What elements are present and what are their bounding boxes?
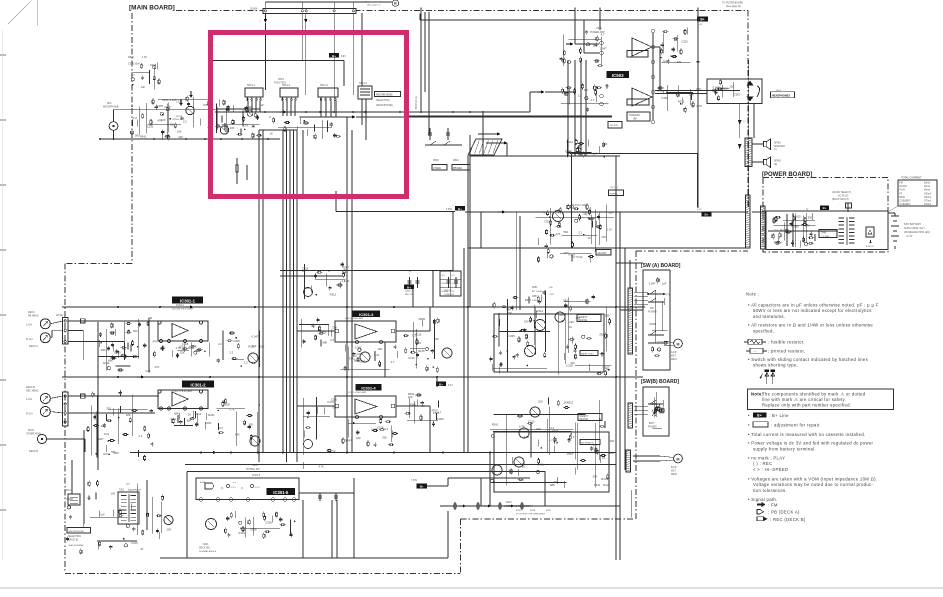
svg-text:▷: ▷ — [241, 486, 244, 490]
svg-text:0.047: 0.047 — [131, 541, 138, 545]
arrow down to speaker connector — [738, 120, 742, 125]
IC301-2 input network — [131, 395, 133, 436]
svg-text:< > : HI−SPEED: < > : HI−SPEED — [753, 467, 788, 472]
svg-text:R-CH: R-CH — [26, 412, 33, 416]
bias table S301-1 — [440, 271, 461, 296]
deck B lower enclosure — [494, 432, 609, 492]
svg-text:SW 503: SW 503 — [610, 125, 619, 127]
svg-text:4.7K: 4.7K — [229, 408, 235, 412]
svg-text:4.7K: 4.7K — [665, 293, 671, 297]
svg-text:A PLAY GND: A PLAY GND — [573, 204, 587, 207]
wire CN304 pin drop — [333, 14, 335, 113]
svg-text:THM: THM — [821, 232, 826, 235]
svg-text:100: 100 — [148, 316, 153, 320]
wire mon head — [47, 438, 85, 440]
bottom bias resistor row — [440, 505, 620, 507]
svg-text:REC HEAD: REC HEAD — [26, 390, 39, 393]
svg-text:S501: S501 — [278, 78, 284, 81]
IC301-5 bottom resistor clusters — [289, 520, 291, 536]
svg-text:2.2: 2.2 — [341, 279, 345, 283]
svg-text:C210: C210 — [408, 356, 415, 360]
svg-text:(DECK B): (DECK B) — [68, 540, 78, 542]
svg-text:4.7: 4.7 — [131, 73, 135, 77]
svg-text:DRY BATTERY: DRY BATTERY — [904, 223, 922, 226]
svg-text:60mA: 60mA — [924, 182, 930, 185]
svg-text:SAFETY: SAFETY — [579, 316, 588, 319]
svg-text:C318: C318 — [265, 521, 272, 525]
wire CN304 pin drop 2 — [352, 14, 354, 96]
svg-text:MUTING SW: MUTING SW — [246, 469, 260, 471]
IC301-2 bias resistors below — [177, 415, 179, 423]
svg-text:MICROPHONE: MICROPHONE — [103, 107, 119, 109]
svg-text:R115: R115 — [603, 483, 610, 487]
svg-text:100: 100 — [103, 452, 108, 456]
B+ tag right bus — [436, 382, 446, 387]
svg-text:47K: 47K — [556, 232, 561, 236]
svg-text:B+: B+ — [705, 213, 709, 217]
svg-text:C507: C507 — [734, 93, 741, 97]
svg-text:100: 100 — [524, 319, 529, 323]
deck A rec/pb component cluster — [606, 205, 608, 242]
svg-text:S501-3: S501-3 — [320, 84, 329, 87]
svg-text:[SW (A) BOARD]: [SW (A) BOARD] — [641, 263, 681, 269]
svg-text:R201: R201 — [506, 501, 512, 504]
svg-text:1uF: 1uF — [100, 513, 105, 517]
transistor Q208 — [514, 457, 524, 467]
resistor row under IC503 — [566, 139, 568, 157]
svg-text:IC503: IC503 — [612, 73, 624, 78]
wire vertical x483 — [482, 112, 484, 156]
wire play line down — [469, 135, 471, 307]
svg-text:B+: B+ — [823, 206, 827, 210]
svg-text:7.45V: 7.45V — [411, 480, 417, 482]
IC301-5 section enclosure — [186, 472, 188, 559]
svg-text:HEADPHONES: HEADPHONES — [772, 93, 791, 97]
svg-text:0.01: 0.01 — [374, 353, 380, 357]
svg-text:10K: 10K — [689, 92, 694, 96]
IC301-5 pin circles — [199, 498, 203, 502]
svg-text:( ) : REC: ( ) : REC — [753, 461, 772, 466]
svg-text:10K: 10K — [177, 130, 182, 134]
svg-text:SUM-3 (SIZE "AA"): SUM-3 (SIZE "AA") — [904, 227, 925, 230]
wires deck A drop to SW(A) — [615, 156, 617, 560]
svg-text:C-: C- — [743, 121, 746, 123]
IC301-4 label — [356, 384, 382, 391]
svg-text:[MAIN BOARD]: [MAIN BOARD] — [129, 5, 175, 12]
wire mic top rail — [113, 110, 115, 122]
svg-text:1K: 1K — [140, 547, 143, 551]
svg-text:C318: C318 — [176, 99, 183, 103]
svg-text:R351: R351 — [532, 287, 538, 289]
svg-text:NORMAL ANGLE: NORMAL ANGLE — [199, 550, 217, 553]
speaker SP901 L — [764, 142, 767, 147]
main board outline bottom step vertical — [460, 519, 462, 574]
svg-text:IC301-3: IC301-3 — [359, 312, 374, 317]
svg-text:B+: B+ — [458, 207, 462, 211]
op-amp U301d — [355, 399, 377, 414]
svg-text:90mA: 90mA — [924, 189, 930, 192]
IC301-3 pin circles — [335, 329, 339, 333]
svg-text:2.2: 2.2 — [244, 360, 248, 364]
svg-text:OTHER HEAD: OTHER HEAD — [26, 433, 41, 436]
svg-text:R341: R341 — [101, 348, 108, 352]
svg-text:C210: C210 — [565, 149, 572, 153]
svg-text:330: 330 — [106, 407, 111, 411]
IC301-2 pin circles — [159, 407, 162, 410]
transistor Q204 — [525, 346, 536, 357]
svg-text:4.7: 4.7 — [601, 32, 605, 36]
svg-text:1.5K: 1.5K — [142, 56, 147, 59]
transistor Q301 — [248, 353, 258, 363]
main bus y212 to power board — [465, 211, 748, 213]
svg-text:2.2: 2.2 — [550, 426, 554, 430]
deck B bias osc cluster right — [605, 308, 607, 352]
IC301-2 block outline — [158, 390, 208, 409]
svg-text:68K: 68K — [323, 341, 328, 345]
svg-text:560: 560 — [133, 329, 138, 333]
svg-text:IC301-2: IC301-2 — [191, 382, 207, 387]
transistor Q212 — [164, 515, 173, 524]
svg-text:R115: R115 — [359, 360, 366, 364]
label R501 PB/REC — [452, 165, 470, 171]
SW(B) switch symbols — [648, 403, 663, 405]
svg-text:5.35V: 5.35V — [446, 209, 452, 211]
svg-text:2.2: 2.2 — [385, 427, 389, 431]
svg-text:: B+ Line: : B+ Line — [769, 413, 789, 418]
svg-text:(L): (L) — [774, 149, 777, 151]
svg-text:C305: C305 — [508, 334, 515, 338]
svg-text:R267: R267 — [546, 510, 552, 512]
svg-text:0.047: 0.047 — [355, 345, 362, 349]
SW(B) interior contacts — [655, 392, 657, 417]
SW(A) interior contacts — [661, 301, 663, 331]
wire from pink box bottom to B+ bus — [335, 191, 337, 212]
svg-text:22K: 22K — [167, 528, 172, 532]
svg-text:1uF: 1uF — [662, 282, 667, 286]
sw speed B label — [580, 440, 600, 445]
arrow on bus y452 — [213, 451, 217, 454]
IC503 output network lower — [666, 85, 668, 111]
connector bar CN203 — [628, 288, 633, 354]
wire L-CH deck B — [50, 396, 62, 399]
svg-text:• All capacitors are in µF un: • All capacitors are in µF unless otherw… — [748, 302, 879, 307]
svg-text:MIC: MIC — [107, 102, 112, 105]
wire bus down from B+ node — [697, 8, 699, 209]
transistor Q304 — [304, 440, 313, 449]
svg-text:10K: 10K — [230, 126, 235, 130]
bottom step wire — [447, 511, 449, 558]
svg-text:10K: 10K — [570, 361, 575, 365]
IC503 input caps cluster lower — [568, 89, 570, 105]
capacitor pair S301-2 — [409, 277, 411, 288]
svg-text:R529: R529 — [128, 56, 134, 59]
wire pink box top rail — [213, 60, 344, 62]
svg-text:(DECK/PHONE): (DECK/PHONE) — [376, 105, 393, 107]
svg-text:SELECTING: SELECTING — [376, 99, 390, 102]
svg-text:190mA: 190mA — [924, 196, 932, 199]
svg-text:100: 100 — [179, 344, 184, 348]
transistor Q501 mic amp — [186, 106, 194, 114]
svg-text:DECK SEL: DECK SEL — [199, 548, 211, 550]
wire bundle descending from switches to equalizer — [258, 130, 260, 462]
safety device label A — [577, 315, 601, 322]
main record bus through pink box — [215, 111, 530, 113]
REC arrow legend — [757, 517, 764, 521]
wire R-ch input — [584, 52, 599, 54]
svg-text:R207: R207 — [525, 298, 532, 302]
svg-text:C318: C318 — [250, 528, 257, 532]
svg-text:2.2: 2.2 — [218, 342, 222, 346]
svg-text:4.7K: 4.7K — [318, 465, 324, 469]
svg-text:10K: 10K — [610, 439, 615, 443]
svg-text:C210: C210 — [682, 39, 689, 43]
svg-text:STAND BY: STAND BY — [629, 114, 641, 117]
wire major bus y307 — [62, 306, 645, 308]
svg-text:B+: B+ — [332, 54, 336, 58]
op-amp U503a feedback box — [627, 51, 648, 58]
connector CN102 bar — [63, 392, 69, 426]
IC503 label — [607, 71, 630, 78]
svg-text:0.01: 0.01 — [145, 369, 151, 373]
svg-text:47K: 47K — [152, 339, 157, 343]
svg-text:AZ TH-SE: AZ TH-SE — [532, 290, 542, 293]
svg-text:CUE&REV: CUE&REV — [900, 200, 912, 202]
svg-text:4.7: 4.7 — [438, 411, 442, 415]
svg-text:68K: 68K — [174, 411, 179, 415]
svg-text:330: 330 — [599, 332, 604, 336]
ferrite bead L — [81, 319, 86, 323]
wire top rail to node B — [265, 1, 392, 3]
op-amp U503b — [632, 88, 652, 106]
svg-text:TO (tuner board): TO (tuner board) — [365, 1, 382, 4]
svg-text:2.2: 2.2 — [133, 116, 137, 120]
svg-text:1uF: 1uF — [225, 129, 230, 133]
bottom row verticals — [454, 500, 456, 506]
svg-text:R312: R312 — [537, 309, 544, 313]
svg-text:C210: C210 — [657, 340, 664, 344]
svg-text:4.7K: 4.7K — [585, 213, 591, 217]
power board filter caps cluster — [786, 214, 788, 246]
svg-text:5.4V: 5.4V — [448, 385, 453, 387]
svg-text:330: 330 — [382, 436, 387, 440]
svg-text:R312: R312 — [567, 140, 574, 144]
IC301-3 surrounding network — [348, 346, 350, 370]
svg-text:22K: 22K — [260, 345, 265, 349]
wire x433 drop — [432, 271, 434, 307]
svg-text:Voltage variations may be: Voltage variations may be noted due to n… — [753, 482, 873, 487]
svg-text:MON: MON — [28, 429, 34, 432]
wires IC301-5 right routing — [299, 485, 416, 487]
svg-text:•: • — [748, 413, 750, 418]
svg-text:A-FR: A-FR — [671, 351, 677, 354]
IC503 input caps cluster upper — [563, 35, 565, 61]
printed resistor symbol — [746, 350, 750, 352]
svg-text:4.7K: 4.7K — [696, 104, 702, 108]
svg-text:R265: R265 — [516, 510, 522, 512]
svg-text:C305: C305 — [661, 96, 668, 100]
svg-text:B+: B+ — [439, 382, 443, 386]
svg-text:[SW(B) BOARD]: [SW(B) BOARD] — [641, 379, 679, 385]
svg-text:M901: M901 — [671, 359, 677, 361]
svg-text:IC301-5: IC301-5 — [273, 490, 289, 495]
wire row y276 — [280, 275, 343, 277]
bottom long wire — [160, 557, 448, 559]
FM arrow legend — [757, 502, 766, 507]
svg-text:M: M — [677, 343, 680, 347]
wire vertical x507 to play bus — [506, 143, 508, 156]
cap C505 — [246, 165, 248, 180]
svg-text:SONY: SONY — [442, 283, 448, 285]
capacitor C509 — [429, 128, 431, 140]
svg-text:TOTAL CURRENT: TOTAL CURRENT — [901, 177, 922, 180]
svg-text:FUNCTION: FUNCTION — [274, 83, 286, 85]
transistor Q305 — [360, 352, 370, 362]
svg-text:• Power voltage is dc 3V: • Power voltage is dc 3V and fed with re… — [748, 441, 874, 446]
svg-text:IC301-2 PB EQ AMP: IC301-2 PB EQ AMP — [172, 390, 193, 393]
wire battery to board — [888, 212, 895, 214]
IC301-5 label — [267, 488, 296, 495]
svg-text:B+: B+ — [407, 285, 411, 289]
IC301-1 input network — [123, 325, 125, 355]
svg-text:● ●: ● ● — [233, 482, 236, 484]
IC301-5 interior parts — [227, 485, 230, 488]
speaker SP902 R — [764, 160, 767, 165]
transistor Q211 — [206, 519, 217, 530]
REC/PB mode label bottom — [67, 528, 91, 534]
svg-text:60mA: 60mA — [924, 185, 930, 188]
svg-text:▷: ▷ — [221, 486, 224, 490]
svg-text:S201: S201 — [203, 544, 209, 546]
svg-text:LEAD/NORMAL: LEAD/NORMAL — [68, 544, 84, 547]
main board outline bottom edge right — [461, 518, 634, 520]
signal arrow play path — [504, 141, 508, 144]
main board outline top edge — [176, 10, 748, 12]
motor M901 deck A — [674, 339, 683, 348]
bottom-left long verticals — [83, 430, 85, 524]
transistor Q306 — [442, 348, 452, 358]
svg-text:PB HEAD: PB HEAD — [28, 315, 39, 318]
svg-text:10K: 10K — [377, 347, 382, 351]
svg-text:R501: R501 — [453, 159, 459, 162]
svg-text:R341: R341 — [594, 483, 601, 487]
svg-text:R312: R312 — [678, 99, 685, 103]
switch S501-3 — [318, 88, 338, 97]
wires into SW(A) — [616, 262, 643, 264]
deck B lower cluster — [546, 419, 548, 453]
B+ tag power board — [820, 206, 829, 211]
svg-text:22K: 22K — [161, 118, 166, 122]
main board outline right edge — [747, 11, 749, 208]
IC503 pin circles — [651, 29, 655, 33]
wire bus y156 — [470, 155, 620, 157]
svg-text:•: • — [748, 423, 750, 428]
deck B bias osc cluster upper — [535, 307, 537, 355]
svg-text:R312: R312 — [330, 292, 337, 296]
mid column coupling network lower — [256, 412, 258, 452]
wire CN301 riser right — [574, 8, 576, 45]
transistor Q302 — [250, 436, 260, 446]
svg-text:L-CH: L-CH — [26, 323, 32, 327]
svg-text:and tantalums.: and tantalums. — [753, 314, 785, 319]
caps right of IC301-5 — [319, 493, 321, 501]
op-amp U301c — [355, 324, 377, 339]
svg-text:0.01: 0.01 — [607, 227, 613, 231]
wire step to B+ tag — [427, 485, 448, 487]
svg-text:f-CO: f-CO — [255, 487, 260, 489]
wire CN304 pin drop 3 — [301, 14, 303, 61]
arrow down 2 — [738, 144, 742, 149]
svg-text:ADJUST: ADJUST — [598, 252, 608, 255]
capacitor C510 — [447, 128, 449, 140]
wire REC bus to IC503 — [529, 92, 531, 112]
svg-text:FM: FM — [900, 183, 903, 185]
svg-text:1uF: 1uF — [141, 85, 146, 89]
svg-text:IC301-4: IC301-4 — [361, 385, 376, 390]
connector CN501 bar — [746, 195, 751, 248]
svg-text:0.047: 0.047 — [327, 400, 334, 404]
svg-text:T201: T201 — [119, 490, 125, 492]
svg-text:1K: 1K — [675, 92, 678, 96]
svg-text:R115: R115 — [239, 531, 246, 535]
svg-text:330: 330 — [519, 478, 524, 482]
svg-text:100: 100 — [111, 491, 116, 495]
svg-text:IC301-1: IC301-1 — [180, 298, 196, 303]
IC301-5 block outline — [196, 478, 299, 500]
svg-text:68K: 68K — [187, 419, 192, 423]
svg-text:R115: R115 — [650, 322, 657, 326]
main bus y248 — [468, 247, 748, 249]
IC301-3 label — [353, 311, 381, 318]
svg-text:• All resistors are in Ω and: • All resistors are in Ω and 1/4W or les… — [748, 322, 873, 327]
svg-text:1K: 1K — [270, 131, 273, 135]
svg-text:MOT: MOT — [671, 471, 677, 473]
svg-text:0.047: 0.047 — [600, 46, 607, 50]
svg-text:R207: R207 — [97, 437, 104, 441]
svg-text:REW: REW — [900, 197, 906, 199]
svg-text:×2 3V: ×2 3V — [906, 235, 913, 238]
arrow up to battery — [870, 239, 872, 243]
REC/PB mode switch S202 cluster — [137, 483, 139, 535]
connector CN201 bar — [63, 318, 69, 345]
svg-text:R115: R115 — [601, 477, 608, 481]
svg-text:A MB: A MB — [200, 481, 206, 484]
svg-text:68K: 68K — [506, 307, 511, 311]
svg-text:NORM: NORM — [442, 291, 448, 293]
svg-text:R312: R312 — [567, 401, 574, 405]
svg-text:Replace only with part number: Replace only with part number specified. — [762, 402, 851, 407]
svg-text:68K: 68K — [550, 483, 555, 487]
svg-text:68K: 68K — [354, 359, 359, 363]
svg-text:PB/REC: PB/REC — [610, 193, 619, 195]
wires into SW(B) — [634, 405, 648, 407]
bus with junction dots y452 — [130, 452, 616, 454]
svg-text:B+: B+ — [420, 484, 424, 488]
deck B record section enclosure — [494, 314, 604, 372]
svg-text:CUE&REV: CUE&REV — [900, 204, 912, 206]
wire major bus y377 — [62, 376, 643, 378]
svg-text:47K: 47K — [155, 365, 160, 369]
svg-text:4.7: 4.7 — [126, 482, 130, 486]
label R503 FIXED — [432, 165, 447, 171]
svg-text:22K: 22K — [126, 413, 131, 417]
svg-text:4.5V: 4.5V — [697, 209, 702, 211]
page bottom scan edge — [0, 587, 943, 589]
junction dots mic bus — [99, 138, 101, 140]
risers above connector bar — [264, 2, 266, 8]
svg-text:3.3: 3.3 — [244, 123, 248, 127]
svg-text:3.3: 3.3 — [774, 228, 778, 232]
wire bundle to IC301-3 input — [297, 330, 335, 332]
